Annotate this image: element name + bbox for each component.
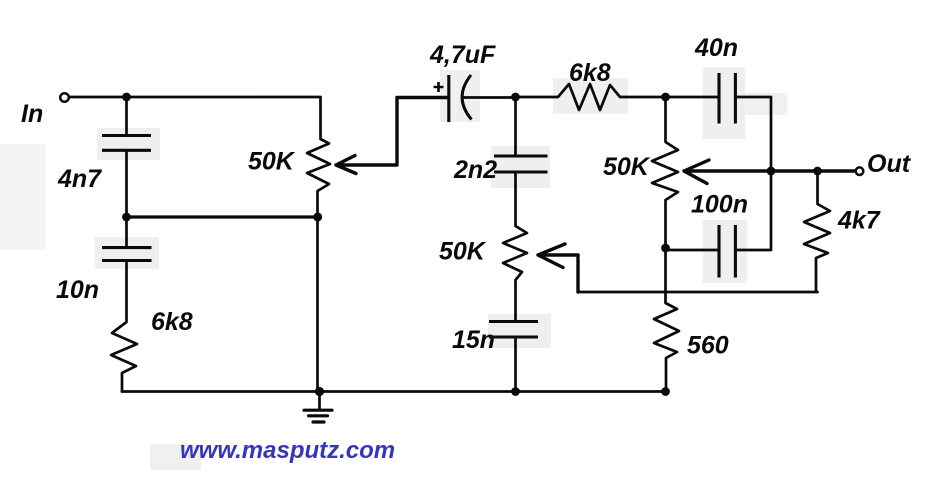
svg-text:10n: 10n: [56, 276, 99, 304]
svg-text:4k7: 4k7: [837, 207, 881, 235]
svg-text:www.masputz.com: www.masputz.com: [180, 437, 395, 464]
svg-text:6k8: 6k8: [569, 59, 611, 87]
svg-text:560: 560: [687, 332, 729, 360]
svg-text:50K: 50K: [603, 153, 651, 181]
svg-text:4n7: 4n7: [57, 165, 102, 193]
svg-text:In: In: [21, 100, 43, 128]
svg-text:15n: 15n: [452, 326, 495, 354]
svg-text:100n: 100n: [691, 191, 748, 219]
svg-text:4,7uF: 4,7uF: [429, 41, 496, 69]
svg-text:50K: 50K: [248, 148, 296, 176]
svg-text:40n: 40n: [694, 34, 738, 62]
svg-text:6k8: 6k8: [151, 308, 193, 336]
svg-text:2n2: 2n2: [453, 156, 497, 184]
svg-text:Out: Out: [867, 150, 912, 178]
svg-text:50K: 50K: [439, 238, 487, 266]
